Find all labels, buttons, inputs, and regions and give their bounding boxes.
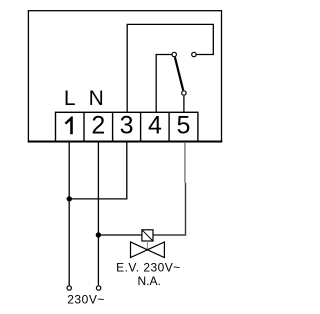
supply terminal circle (L) xyxy=(67,286,71,290)
terminal divider 4/5 xyxy=(168,112,170,141)
wire: valve coil to node on wire 2 xyxy=(98,234,141,236)
wire: moving contact to terminal 5 xyxy=(183,96,185,112)
terminal number 1 xyxy=(65,116,73,134)
bottom edge (thermostat body) xyxy=(28,140,223,142)
valve body left triangle xyxy=(131,242,148,258)
svg-text:230V~: 230V~ xyxy=(67,293,105,307)
thermostat body outline xyxy=(28,11,221,142)
svg-text:4: 4 xyxy=(148,112,162,140)
relay switch arm xyxy=(175,57,183,90)
junction node: valve wire joins wire 2 xyxy=(96,232,101,237)
junction node: wire 3 joins wire 1 xyxy=(67,196,72,201)
terminal divider 1/2 xyxy=(83,112,85,141)
svg-text:5: 5 xyxy=(176,112,190,140)
wire: terminal 2 down to supply xyxy=(97,142,99,285)
terminal divider 3/4 xyxy=(140,112,142,141)
svg-text:N: N xyxy=(89,87,104,110)
relay fixed contact (open circle) xyxy=(192,52,196,56)
svg-text:2: 2 xyxy=(91,112,105,140)
svg-text:3: 3 xyxy=(120,112,134,140)
relay moving contact (open circle) xyxy=(182,91,186,95)
terminal strip outline xyxy=(56,112,198,141)
wire: terminal 4 to relay pivot xyxy=(156,55,171,113)
wire: terminal 5 down (upper gray segment) xyxy=(184,142,186,183)
wire: terminal 5 down to valve (black segment) xyxy=(153,183,185,235)
terminal divider 2/3 xyxy=(112,112,114,141)
relay pivot contact (open circle) xyxy=(172,52,176,56)
svg-text:L: L xyxy=(64,87,76,110)
wire: terminal 3 to relay fixed contact (inner loop) xyxy=(127,24,213,112)
svg-text:N.A.: N.A. xyxy=(138,274,161,288)
wire: terminal 1 down to supply xyxy=(68,142,70,285)
wire: terminal 3 down and left to node on wire 1 xyxy=(69,142,127,199)
solenoid coil diagonal xyxy=(142,230,152,240)
solenoid coil box of electrovalve xyxy=(142,230,153,241)
svg-text:E.V. 230V~: E.V. 230V~ xyxy=(116,261,180,275)
connector: solenoid to valve body xyxy=(146,241,148,250)
supply terminal circle (N) xyxy=(96,286,100,290)
valve body right triangle xyxy=(147,242,164,258)
